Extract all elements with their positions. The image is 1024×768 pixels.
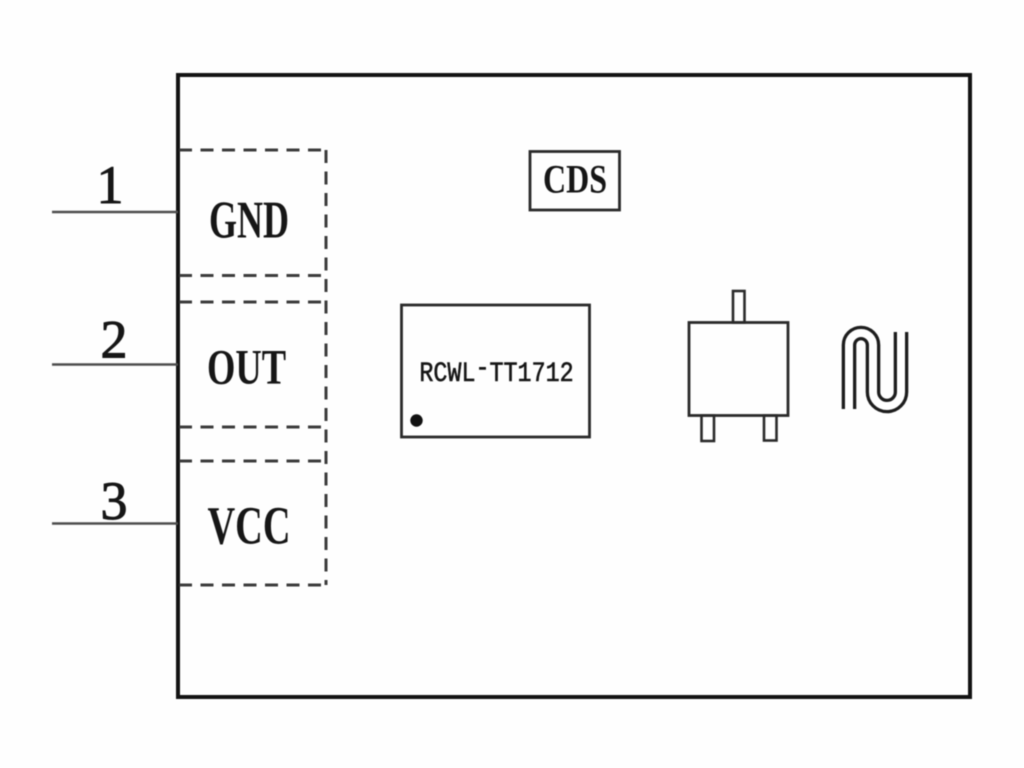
transistor Q1 bottom-right pin bbox=[764, 416, 777, 441]
IC U1 RCWL-TT1712 body bbox=[402, 305, 590, 437]
svg-text:RCWL-TT1712: RCWL-TT1712 bbox=[419, 353, 573, 389]
module outline (main border) bbox=[178, 75, 970, 697]
OUT pad dashed box bbox=[179, 302, 326, 427]
pad boxes shared right dashed edge bbox=[325, 150, 328, 585]
transistor Q1 bottom-left pin bbox=[702, 416, 715, 442]
svg-text:OUT: OUT bbox=[207, 340, 286, 395]
pin 3 wire bbox=[52, 522, 178, 525]
svg-text:3: 3 bbox=[101, 471, 128, 531]
transistor Q1 top pin bbox=[733, 291, 745, 323]
GND pad dashed box bbox=[179, 150, 326, 276]
pin 2 wire bbox=[52, 363, 178, 366]
VCC pad dashed box bbox=[179, 461, 326, 585]
svg-text:1: 1 bbox=[97, 155, 124, 215]
IC U1 pin-1 marker dot bbox=[410, 414, 422, 426]
svg-text:VCC: VCC bbox=[207, 496, 290, 556]
svg-text:2: 2 bbox=[101, 310, 128, 370]
transistor Q1 body bbox=[689, 323, 788, 416]
pin 1 wire bbox=[52, 211, 178, 214]
svg-text:CDS: CDS bbox=[543, 157, 607, 201]
CDS photoresistor box bbox=[530, 152, 620, 211]
antenna serpentine trace bbox=[849, 332, 901, 409]
svg-text:GND: GND bbox=[209, 191, 289, 249]
